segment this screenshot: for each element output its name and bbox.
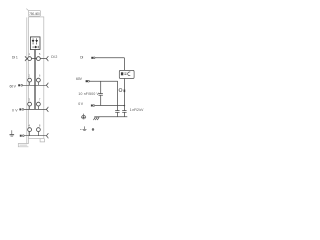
svg-text:1: 1	[28, 52, 30, 56]
svg-text:7: 7	[39, 97, 41, 101]
svg-text:0 V: 0 V	[12, 108, 18, 112]
svg-text:10 nF/500 V: 10 nF/500 V	[78, 92, 99, 96]
svg-text:DI 2: DI 2	[51, 55, 57, 59]
svg-text:4: 4	[28, 123, 30, 127]
svg-text:5: 5	[39, 52, 41, 56]
svg-text:DI: DI	[80, 55, 83, 59]
svg-text:1 nF/2 kV: 1 nF/2 kV	[130, 108, 144, 112]
svg-text:2: 2	[28, 73, 30, 77]
svg-text:750-400: 750-400	[29, 12, 39, 16]
svg-text:60V: 60V	[76, 77, 83, 81]
svg-text:60 V: 60 V	[10, 85, 17, 89]
svg-text:6: 6	[39, 73, 41, 77]
svg-text:8: 8	[39, 123, 41, 127]
svg-text:DI 1: DI 1	[12, 56, 18, 60]
svg-text:0V: 0V	[78, 102, 84, 106]
svg-text:3: 3	[28, 97, 30, 101]
